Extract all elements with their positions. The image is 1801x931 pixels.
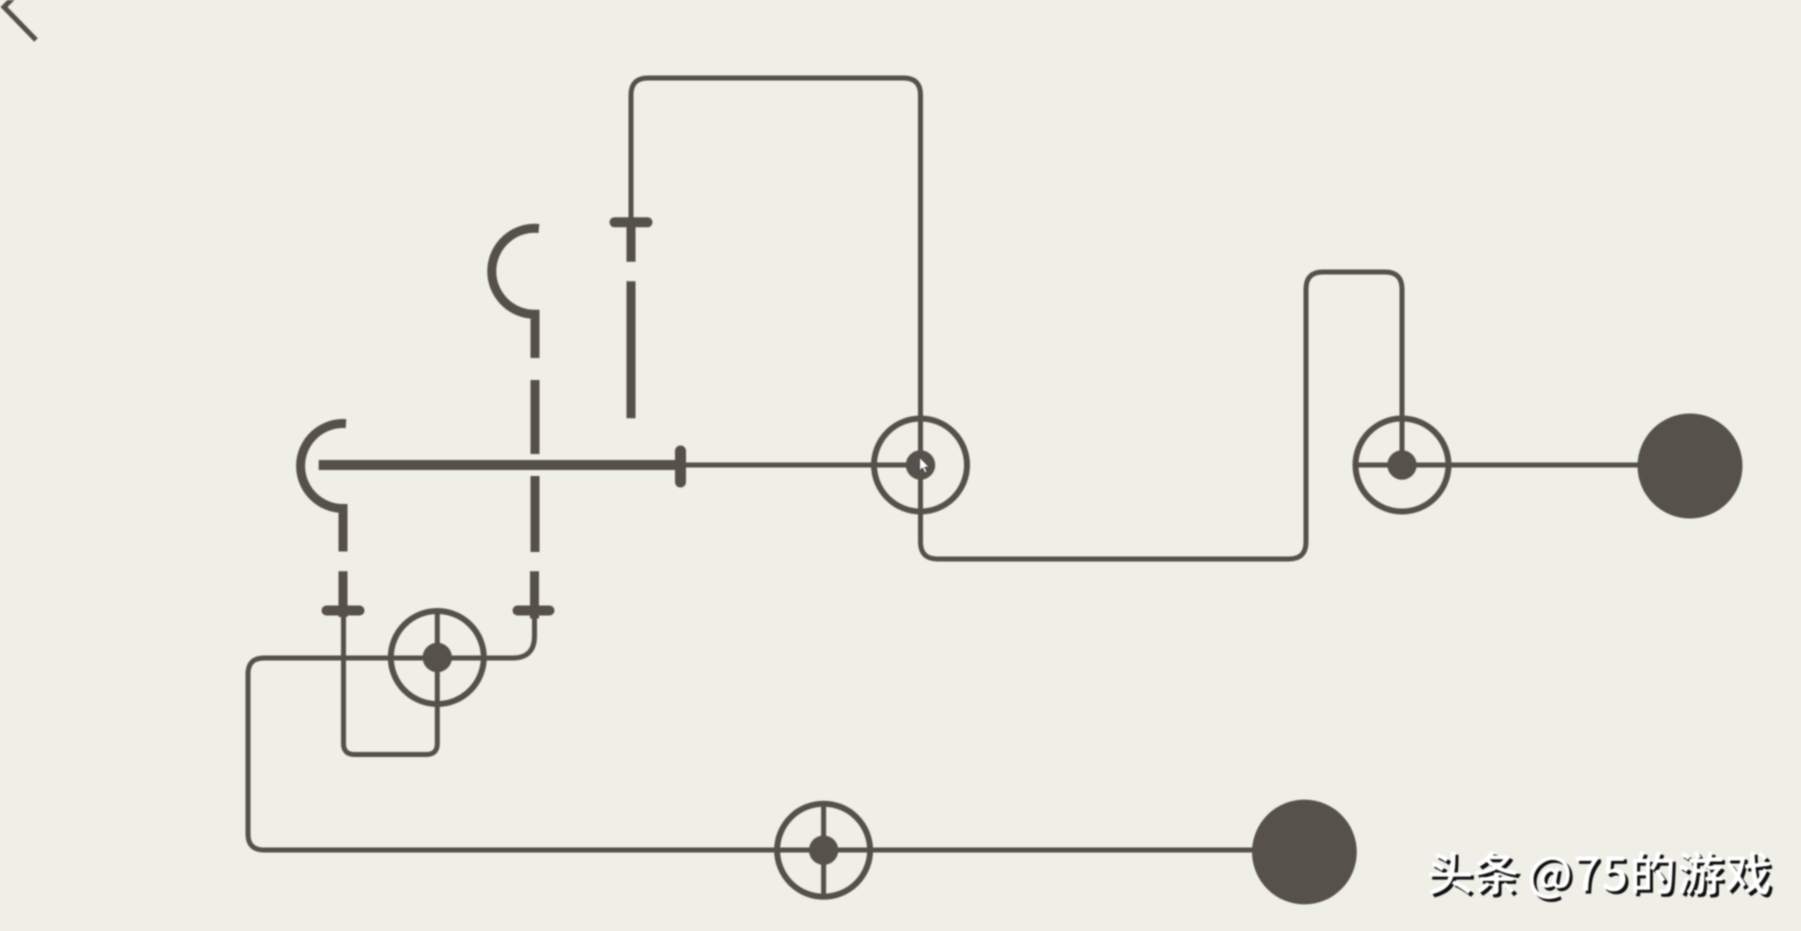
wire: long path from pin P1 up over and down through rotator N1 to rotator N2: [631, 78, 1402, 559]
rotator N3 ring: [391, 611, 484, 704]
wire: thin segment from tick T1 to rotator N1 center: [682, 463, 921, 468]
rotator N2 ring: [1356, 419, 1449, 512]
wire: U connector from pin P3 to rotator N3: [344, 615, 438, 755]
rotator N4 dot: [809, 836, 838, 865]
mouse cursor: [920, 457, 929, 473]
tick T1 on thick line: [675, 451, 686, 482]
wire: lower path pin P2 to rotator N3 to ball B2 line: [248, 614, 1304, 850]
wire: rotator N2 to ball B1: [1354, 463, 1690, 468]
pin bar P3: [327, 606, 360, 616]
dashed wire D1 (x=631): [627, 227, 636, 418]
ball B1: [1638, 414, 1743, 519]
pin bar P2: [518, 606, 550, 616]
watermark 头条 @75的游戏: [1429, 851, 1773, 902]
dashed wire D3 (x=343): [339, 571, 348, 617]
dashed wire D2 (x=535): [530, 380, 540, 619]
back button chevron: [4, 0, 38, 40]
rotator N4 vertical chord: [821, 803, 826, 898]
rotator N1 dot: [906, 450, 935, 479]
ball B2: [1252, 800, 1357, 905]
rotator N4 ring: [777, 804, 870, 897]
rotator N3 dot: [423, 643, 452, 672]
pin bar P1: [615, 217, 648, 227]
hook H1 upper: [492, 228, 539, 358]
wire: rotator N3 top chord: [435, 612, 440, 658]
hook H2 left: [301, 424, 346, 552]
wire: thick main line into hook H2: [319, 460, 682, 470]
rotator N2 dot: [1387, 450, 1416, 479]
rotator N1 ring: [874, 419, 967, 512]
